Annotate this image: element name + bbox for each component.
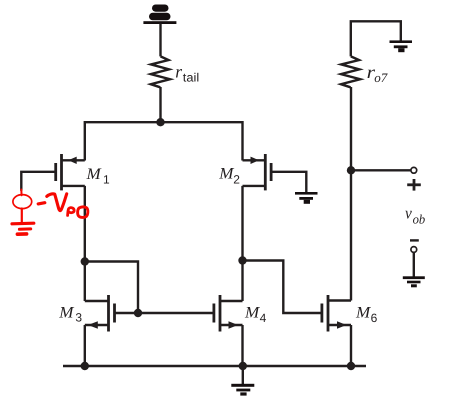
wire r_o7 to top ground	[351, 21, 401, 56]
red test source group	[12, 190, 88, 235]
wire M3 diode connection	[85, 262, 138, 314]
node tail junction	[156, 118, 164, 126]
svg-text:tail: tail	[183, 71, 199, 85]
svg-text:M: M	[58, 304, 75, 321]
node M1-M3 junction	[81, 257, 89, 265]
svg-text:3: 3	[75, 311, 82, 325]
label r_o7	[367, 62, 388, 85]
red label subscript scribble	[68, 208, 75, 216]
transistor M2	[243, 154, 272, 190]
wire VDD to r_tail	[159, 24, 161, 57]
transistor M4	[214, 261, 243, 367]
wire M6 drain up to r_o7	[350, 87, 352, 301]
node bottom right	[347, 362, 355, 370]
svg-text:M: M	[85, 166, 102, 183]
svg-text:o7: o7	[374, 70, 388, 85]
wire output tap	[351, 169, 411, 171]
red wire stem bottom	[21, 209, 23, 223]
svg-text:1: 1	[103, 173, 110, 187]
ground M2 gate	[295, 192, 318, 204]
ground bottom center	[231, 366, 254, 396]
wire M2 drain down	[241, 186, 243, 261]
label plus output	[407, 179, 421, 191]
svg-text:v: v	[405, 204, 412, 223]
ground output	[403, 276, 425, 287]
wire top rail	[85, 122, 243, 160]
label M2	[218, 166, 240, 187]
power supply VDD symbol	[143, 5, 176, 25]
label v_ob	[405, 204, 426, 227]
label minus output	[410, 239, 419, 241]
red wire stem top	[20, 190, 22, 196]
node M2-M4 junction	[238, 256, 246, 264]
transistor M6	[322, 295, 351, 366]
resistor R o7	[341, 56, 360, 87]
wire M4 drain to M6 gate	[243, 261, 322, 314]
red label minus sign	[38, 203, 45, 204]
red label V	[47, 194, 67, 211]
node bottom center	[239, 362, 247, 370]
terminal output minus	[411, 247, 417, 253]
wire M2 gate to ground	[271, 172, 306, 193]
transistor M3	[85, 262, 115, 367]
svg-text:4: 4	[260, 311, 267, 325]
wire bottom rail	[63, 365, 366, 368]
wire r_tail to tail node	[159, 87, 161, 122]
ground top right	[390, 40, 413, 52]
resistor R tail	[151, 56, 170, 87]
svg-text:ob: ob	[413, 212, 426, 227]
wire minus terminal to ground	[413, 253, 415, 277]
label M6	[355, 304, 378, 324]
svg-text:6: 6	[371, 311, 378, 325]
wire gate bus M3-M4	[115, 312, 214, 314]
label r_tail	[175, 62, 199, 85]
label M4	[244, 304, 267, 324]
node output junction	[347, 166, 355, 174]
svg-text:2: 2	[233, 172, 240, 186]
terminal output plus	[411, 167, 417, 173]
svg-text:M: M	[244, 304, 261, 321]
label M3	[58, 304, 82, 324]
red ground sketch	[12, 222, 34, 226]
wire M1 drain down	[84, 186, 86, 262]
wire M1 gate	[21, 172, 55, 191]
node bottom left	[81, 362, 89, 370]
transistor M1	[56, 154, 85, 190]
svg-text:M: M	[355, 304, 372, 321]
red voltage source circle	[13, 195, 32, 209]
node M3 gate junction	[134, 309, 142, 317]
label M1	[85, 166, 110, 187]
